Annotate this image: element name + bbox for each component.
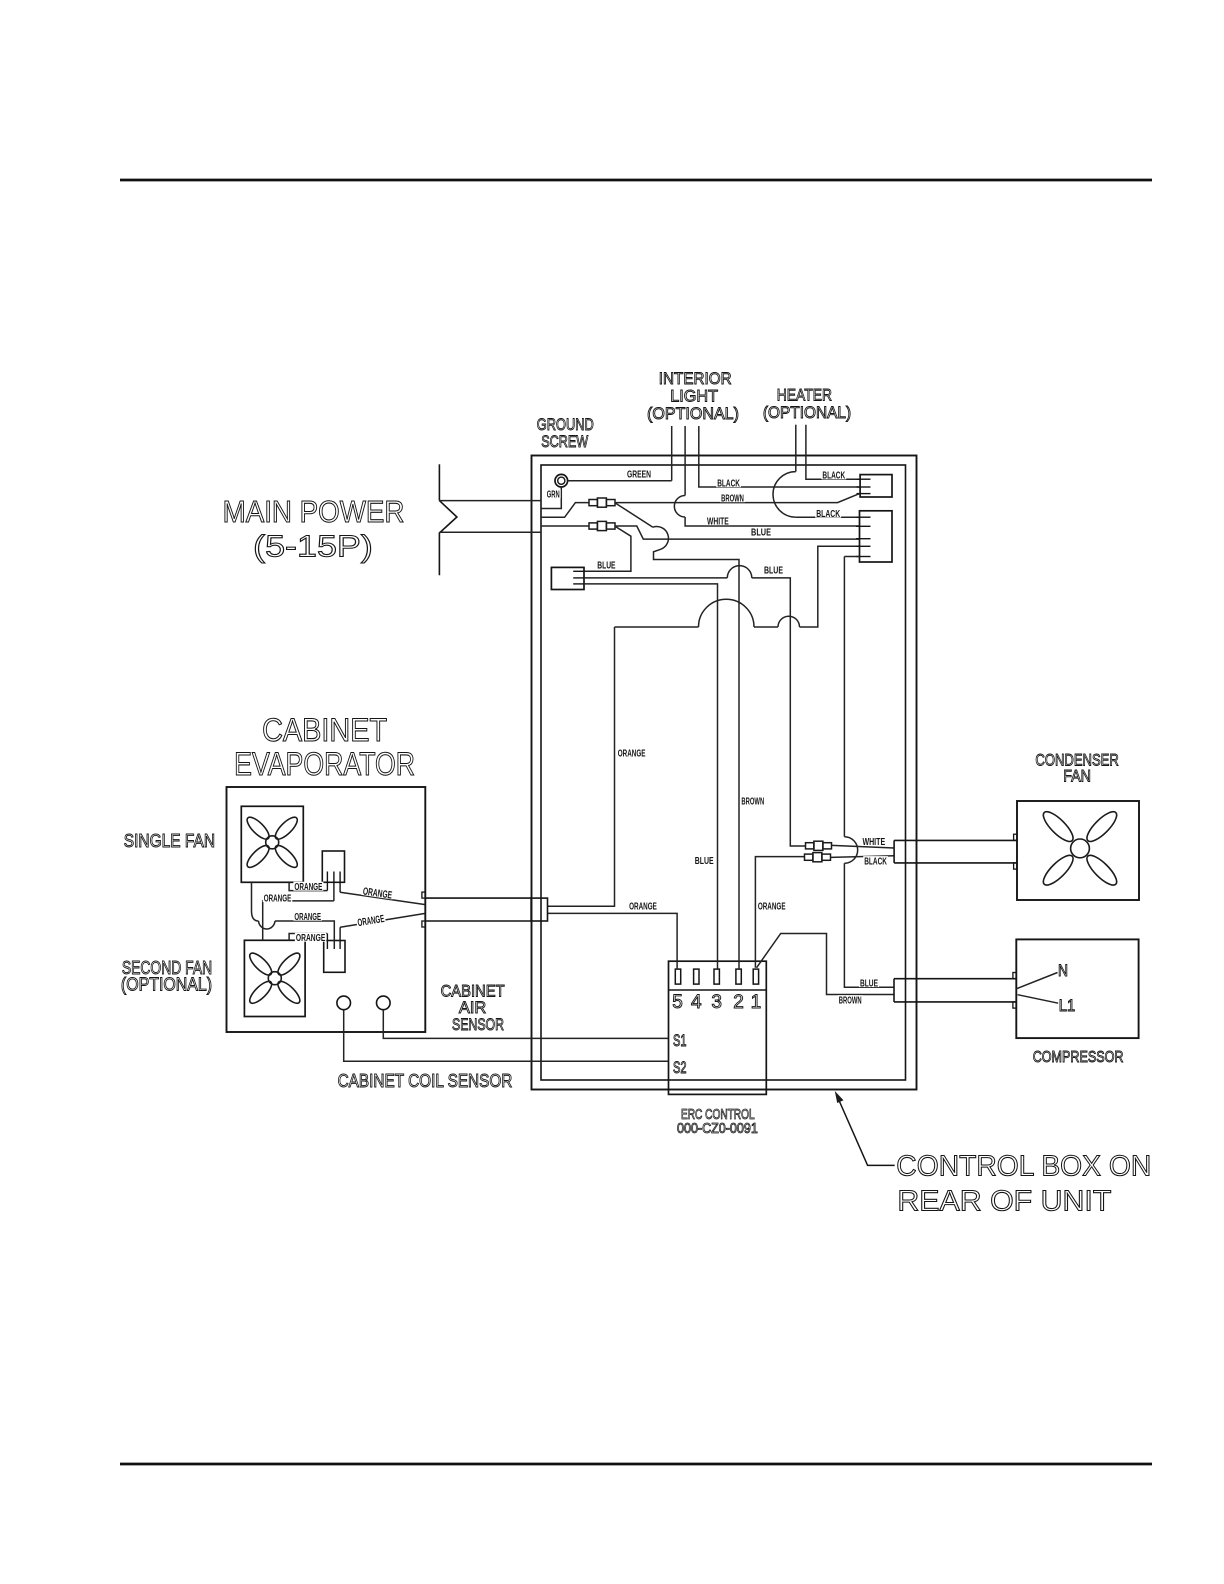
svg-text:SINGLE FAN: SINGLE FAN (124, 831, 215, 851)
svg-text:ORANGE: ORANGE (294, 881, 322, 893)
svg-text:1: 1 (751, 992, 762, 1013)
svg-text:CABINET COIL SENSOR: CABINET COIL SENSOR (338, 1070, 513, 1091)
svg-text:(OPTIONAL): (OPTIONAL) (647, 404, 739, 423)
svg-text:BROWN: BROWN (839, 995, 862, 1007)
svg-text:S1: S1 (673, 1032, 687, 1050)
svg-text:INTERIOR: INTERIOR (659, 369, 732, 388)
svg-text:BLACK: BLACK (822, 470, 845, 482)
svg-text:BLUE: BLUE (764, 565, 783, 577)
svg-text:ORANGE: ORANGE (357, 913, 386, 929)
svg-text:ORANGE: ORANGE (758, 900, 786, 912)
svg-text:BLUE: BLUE (597, 559, 615, 571)
svg-text:000-CZ0-0091: 000-CZ0-0091 (677, 1121, 758, 1137)
svg-text:CONTROL BOX ON: CONTROL BOX ON (896, 1151, 1151, 1183)
svg-text:SCREW: SCREW (541, 432, 588, 451)
svg-text:BLUE: BLUE (695, 855, 714, 867)
svg-text:BLACK: BLACK (816, 508, 840, 520)
svg-text:GREEN: GREEN (627, 469, 651, 481)
svg-text:MAIN POWER: MAIN POWER (223, 494, 405, 529)
svg-text:ORANGE: ORANGE (629, 900, 657, 912)
svg-text:BLUE: BLUE (751, 527, 771, 539)
svg-text:COMPRESSOR: COMPRESSOR (1033, 1049, 1124, 1066)
svg-text:BROWN: BROWN (741, 796, 764, 808)
svg-text:ORANGE: ORANGE (264, 892, 292, 904)
svg-text:S2: S2 (673, 1059, 687, 1077)
svg-text:BLUE: BLUE (860, 977, 878, 989)
svg-text:BLACK: BLACK (864, 855, 887, 867)
svg-text:4: 4 (691, 992, 702, 1013)
svg-text:N: N (1058, 962, 1068, 980)
svg-text:ORANGE: ORANGE (618, 748, 646, 760)
svg-text:BLACK: BLACK (717, 478, 740, 490)
svg-text:SENSOR: SENSOR (452, 1015, 504, 1034)
svg-text:2: 2 (733, 992, 744, 1013)
svg-text:ORANGE: ORANGE (294, 911, 321, 923)
svg-text:FAN: FAN (1063, 767, 1091, 786)
svg-text:HEATER: HEATER (777, 386, 832, 405)
svg-text:(OPTIONAL): (OPTIONAL) (121, 975, 212, 995)
svg-text:BROWN: BROWN (721, 493, 744, 505)
svg-text:L1: L1 (1059, 997, 1075, 1015)
svg-text:EVAPORATOR: EVAPORATOR (234, 746, 415, 782)
svg-text:CABINET: CABINET (262, 712, 387, 748)
svg-text:LIGHT: LIGHT (670, 387, 718, 406)
svg-text:WHITE: WHITE (862, 836, 885, 848)
svg-text:3: 3 (711, 992, 722, 1013)
svg-text:GRN: GRN (547, 489, 560, 501)
svg-text:ORANGE: ORANGE (296, 932, 325, 944)
svg-text:(5-15P): (5-15P) (253, 529, 373, 564)
svg-text:WHITE: WHITE (707, 515, 729, 527)
svg-text:REAR OF UNIT: REAR OF UNIT (897, 1186, 1111, 1218)
svg-text:(OPTIONAL): (OPTIONAL) (763, 403, 851, 422)
svg-text:5: 5 (672, 992, 683, 1013)
svg-text:ORANGE: ORANGE (362, 885, 393, 901)
